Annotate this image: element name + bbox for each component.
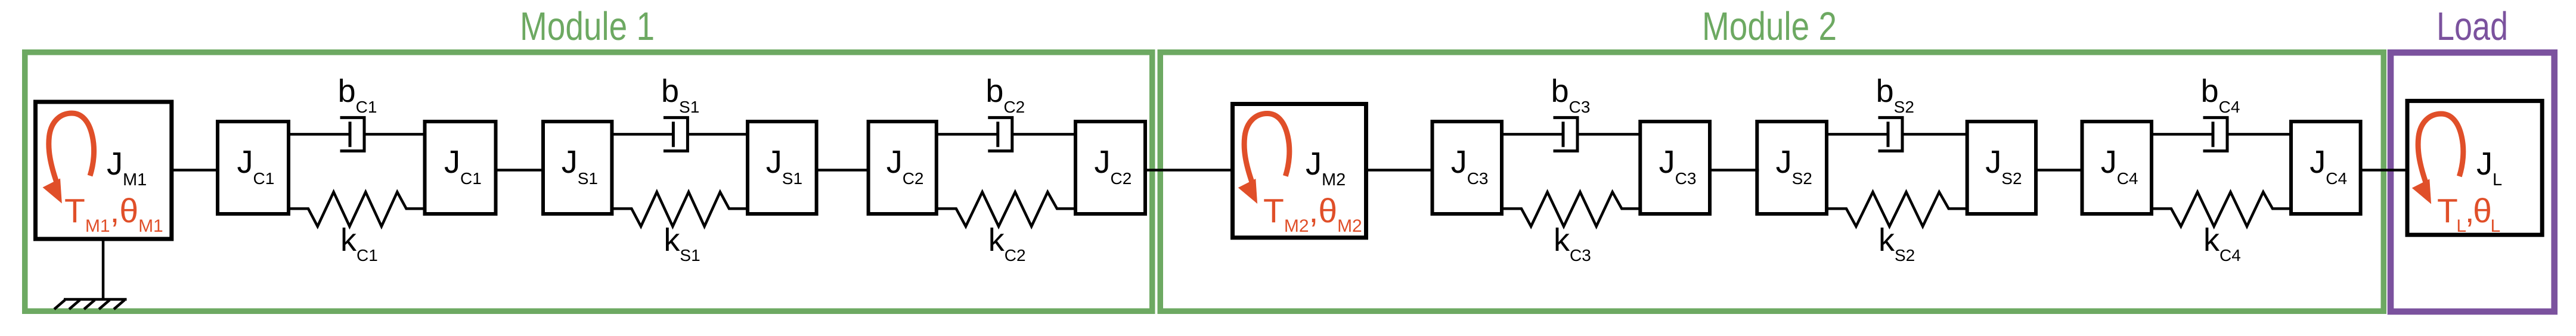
- svg-text:JS2: JS2: [1985, 144, 2022, 188]
- damper b_S2: [1827, 117, 1967, 151]
- inertia block J_C1 left: [218, 122, 289, 214]
- svg-text:bC2: bC2: [985, 73, 1025, 116]
- ground stem: [102, 241, 105, 300]
- rotation arrow J_M1: [43, 113, 94, 204]
- svg-text:kC4: kC4: [2203, 222, 2241, 265]
- spring k_C1: [289, 192, 425, 226]
- wire J_C3 to J_S2: [1710, 169, 1759, 172]
- inertia block J_C3 left: [1433, 122, 1502, 214]
- svg-text:Module 2: Module 2: [1702, 4, 1837, 49]
- svg-text:bC1: bC1: [338, 73, 377, 116]
- inertia block J_M2: [1233, 104, 1366, 238]
- inertia block J_C3 right: [1640, 122, 1710, 214]
- wire J_C4 to J_L: [2361, 169, 2407, 172]
- svg-text:JC3: JC3: [1451, 144, 1489, 188]
- svg-text:Module 1: Module 1: [520, 4, 655, 49]
- wire J_S2 to J_C4: [2036, 169, 2084, 172]
- wire J_C1 to J_S1: [496, 169, 544, 172]
- module 2 frame: [1160, 52, 2383, 312]
- inertia block J_C2 left: [869, 122, 937, 214]
- svg-text:JC2: JC2: [886, 144, 924, 188]
- wire J_C2 to J_M2: [1145, 169, 1232, 172]
- svg-text:JC1: JC1: [237, 144, 275, 188]
- svg-text:JL: JL: [2476, 146, 2502, 189]
- svg-text:TM2,θM2: TM2,θM2: [1263, 192, 1362, 236]
- svg-text:kS2: kS2: [1878, 222, 1915, 265]
- svg-text:TM1,θM1: TM1,θM1: [64, 192, 163, 236]
- svg-text:JM1: JM1: [107, 146, 147, 189]
- load frame: [2391, 52, 2555, 312]
- inertia block J_C4 left: [2082, 122, 2152, 214]
- inertia block J_C2 right: [1075, 122, 1145, 214]
- inertia block J_M1: [36, 102, 172, 239]
- svg-text:bS1: bS1: [661, 73, 699, 116]
- damper b_C2: [937, 117, 1075, 151]
- spring k_S2: [1827, 192, 1967, 226]
- svg-text:JC4: JC4: [2101, 144, 2138, 188]
- svg-text:JC4: JC4: [2310, 144, 2347, 188]
- svg-text:kC2: kC2: [988, 222, 1026, 265]
- svg-text:Load: Load: [2436, 4, 2508, 49]
- spring k_C2: [937, 192, 1075, 226]
- damper b_C1: [289, 117, 425, 151]
- inertia block J_C1 right: [425, 122, 496, 214]
- spring k_C4: [2152, 192, 2291, 226]
- inertia block J_S2 right: [1967, 122, 2036, 214]
- wire J_S1 to J_C2: [817, 169, 869, 172]
- wire J_M1 to J_C1: [172, 169, 219, 172]
- svg-text:bS2: bS2: [1876, 73, 1914, 116]
- svg-text:JS1: JS1: [562, 144, 598, 188]
- wire J_M2 to J_C3: [1366, 169, 1433, 172]
- svg-text:kC3: kC3: [1554, 222, 1591, 265]
- damper b_C4: [2152, 117, 2291, 151]
- rotation arrow J_L: [2412, 114, 2463, 204]
- svg-text:kS1: kS1: [664, 222, 700, 265]
- inertia block J_L: [2407, 101, 2542, 235]
- svg-text:JM2: JM2: [1306, 146, 1346, 189]
- svg-text:JC3: JC3: [1659, 144, 1697, 188]
- inertia block J_S2 left: [1757, 122, 1827, 214]
- module 1 frame: [25, 52, 1152, 312]
- svg-text:JS1: JS1: [766, 144, 802, 188]
- damper b_C3: [1502, 117, 1640, 151]
- spring k_C3: [1502, 192, 1640, 226]
- svg-text:kC1: kC1: [340, 222, 378, 265]
- spring k_S1: [612, 192, 748, 226]
- inertia block J_S1 right: [748, 122, 817, 214]
- svg-text:JS2: JS2: [1776, 144, 1812, 188]
- inertia block J_S1 left: [543, 122, 612, 214]
- svg-text:JC1: JC1: [444, 144, 482, 188]
- damper b_S1: [612, 117, 748, 151]
- svg-text:JC2: JC2: [1095, 144, 1132, 188]
- inertia block J_C4 right: [2291, 122, 2361, 214]
- svg-text:TL,θL: TL,θL: [2437, 192, 2500, 236]
- ground: [54, 300, 127, 310]
- svg-text:bC3: bC3: [1551, 73, 1591, 116]
- svg-text:bC4: bC4: [2201, 73, 2240, 116]
- rotation arrow J_M2: [1238, 114, 1289, 204]
